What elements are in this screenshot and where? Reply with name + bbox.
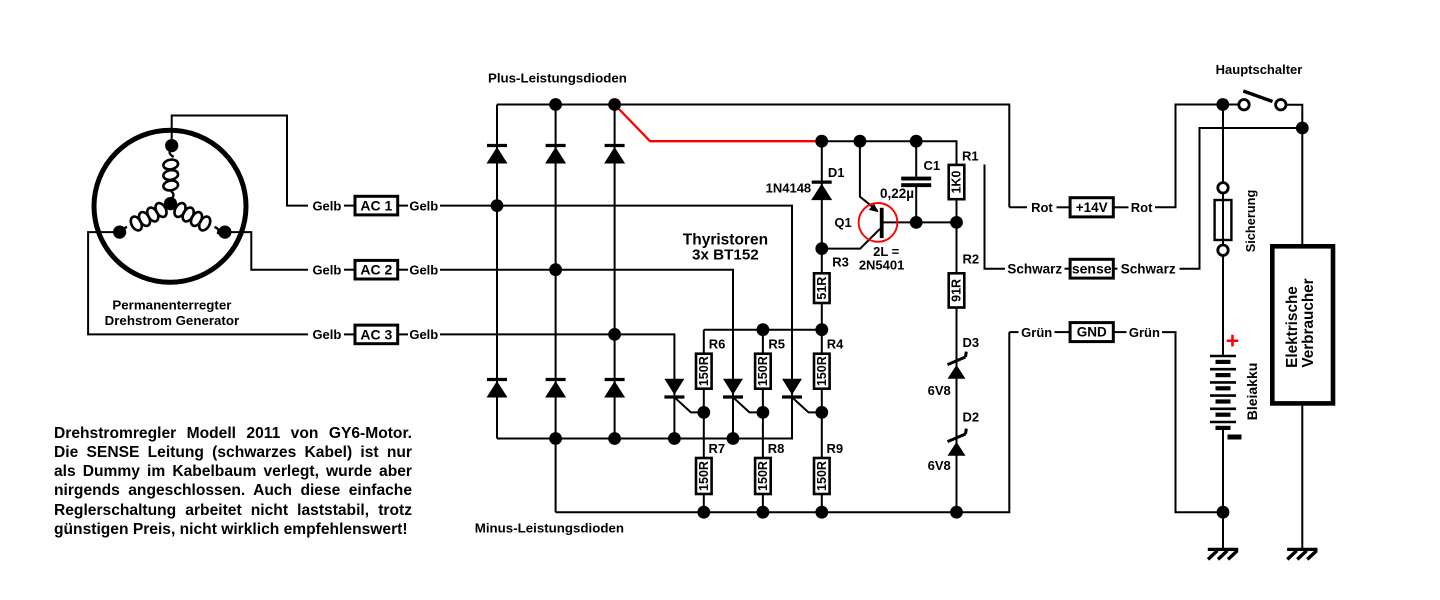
svg-text:1K0: 1K0 bbox=[950, 171, 964, 194]
svg-text:0,22µ: 0,22µ bbox=[880, 186, 914, 201]
svg-text:2N5401: 2N5401 bbox=[859, 258, 905, 273]
svg-text:Drehstrom Generator: Drehstrom Generator bbox=[105, 313, 239, 328]
svg-text:Grün: Grün bbox=[1129, 325, 1160, 340]
svg-text:AC 1: AC 1 bbox=[360, 198, 392, 214]
svg-text:+14V: +14V bbox=[1076, 200, 1108, 215]
svg-text:R7: R7 bbox=[708, 441, 725, 456]
svg-text:Bleiakku: Bleiakku bbox=[1244, 363, 1260, 421]
svg-text:150R: 150R bbox=[815, 461, 829, 491]
svg-text:sense: sense bbox=[1072, 261, 1112, 277]
svg-text:C1: C1 bbox=[923, 158, 940, 173]
svg-text:R8: R8 bbox=[768, 441, 785, 456]
svg-text:91R: 91R bbox=[950, 279, 964, 302]
svg-text:Gelb: Gelb bbox=[312, 198, 341, 213]
svg-text:Gelb: Gelb bbox=[312, 262, 341, 277]
svg-text:AC 2: AC 2 bbox=[360, 262, 392, 278]
svg-text:Rot: Rot bbox=[1131, 200, 1153, 215]
svg-text:Gelb: Gelb bbox=[312, 327, 341, 342]
svg-text:Rot: Rot bbox=[1031, 200, 1053, 215]
svg-text:R4: R4 bbox=[827, 337, 844, 352]
svg-text:Q1: Q1 bbox=[834, 215, 851, 230]
svg-text:R3: R3 bbox=[832, 255, 849, 270]
svg-text:AC 3: AC 3 bbox=[360, 326, 392, 342]
svg-text:D3: D3 bbox=[963, 335, 980, 350]
svg-text:Gelb: Gelb bbox=[409, 327, 438, 342]
svg-text:D2: D2 bbox=[963, 409, 980, 424]
svg-text:150R: 150R bbox=[815, 356, 829, 386]
svg-text:Plus-Leistungsdioden: Plus-Leistungsdioden bbox=[488, 70, 627, 85]
svg-text:Schwarz: Schwarz bbox=[1121, 261, 1176, 276]
svg-text:Gelb: Gelb bbox=[409, 198, 438, 213]
svg-text:51R: 51R bbox=[815, 277, 829, 300]
svg-text:Elektrische: Elektrische bbox=[1284, 286, 1301, 368]
svg-text:6V8: 6V8 bbox=[928, 383, 951, 398]
svg-text:Minus-Leistungsdioden: Minus-Leistungsdioden bbox=[475, 521, 624, 536]
svg-text:Grün: Grün bbox=[1021, 325, 1052, 340]
svg-text:R6: R6 bbox=[709, 337, 726, 352]
svg-text:150R: 150R bbox=[697, 461, 711, 491]
svg-text:1N4148: 1N4148 bbox=[766, 181, 812, 196]
svg-text:GND: GND bbox=[1077, 325, 1107, 340]
svg-text:+: + bbox=[1226, 328, 1239, 354]
svg-text:Gelb: Gelb bbox=[409, 262, 438, 277]
svg-text:Schwarz: Schwarz bbox=[1007, 261, 1062, 276]
svg-text:Hauptschalter: Hauptschalter bbox=[1216, 62, 1303, 77]
svg-text:Verbraucher: Verbraucher bbox=[1300, 278, 1317, 367]
svg-text:Permanenterregter: Permanenterregter bbox=[112, 298, 231, 313]
svg-text:150R: 150R bbox=[697, 356, 711, 386]
svg-text:R1: R1 bbox=[962, 148, 979, 163]
svg-text:D1: D1 bbox=[828, 165, 845, 180]
svg-text:R5: R5 bbox=[768, 337, 785, 352]
svg-text:R2: R2 bbox=[963, 252, 980, 267]
svg-text:150R: 150R bbox=[756, 356, 770, 386]
svg-text:6V8: 6V8 bbox=[928, 458, 951, 473]
svg-text:Sicherung: Sicherung bbox=[1243, 190, 1258, 253]
svg-text:3x BT152: 3x BT152 bbox=[692, 247, 759, 264]
svg-text:150R: 150R bbox=[756, 461, 770, 491]
svg-text:R9: R9 bbox=[826, 441, 843, 456]
